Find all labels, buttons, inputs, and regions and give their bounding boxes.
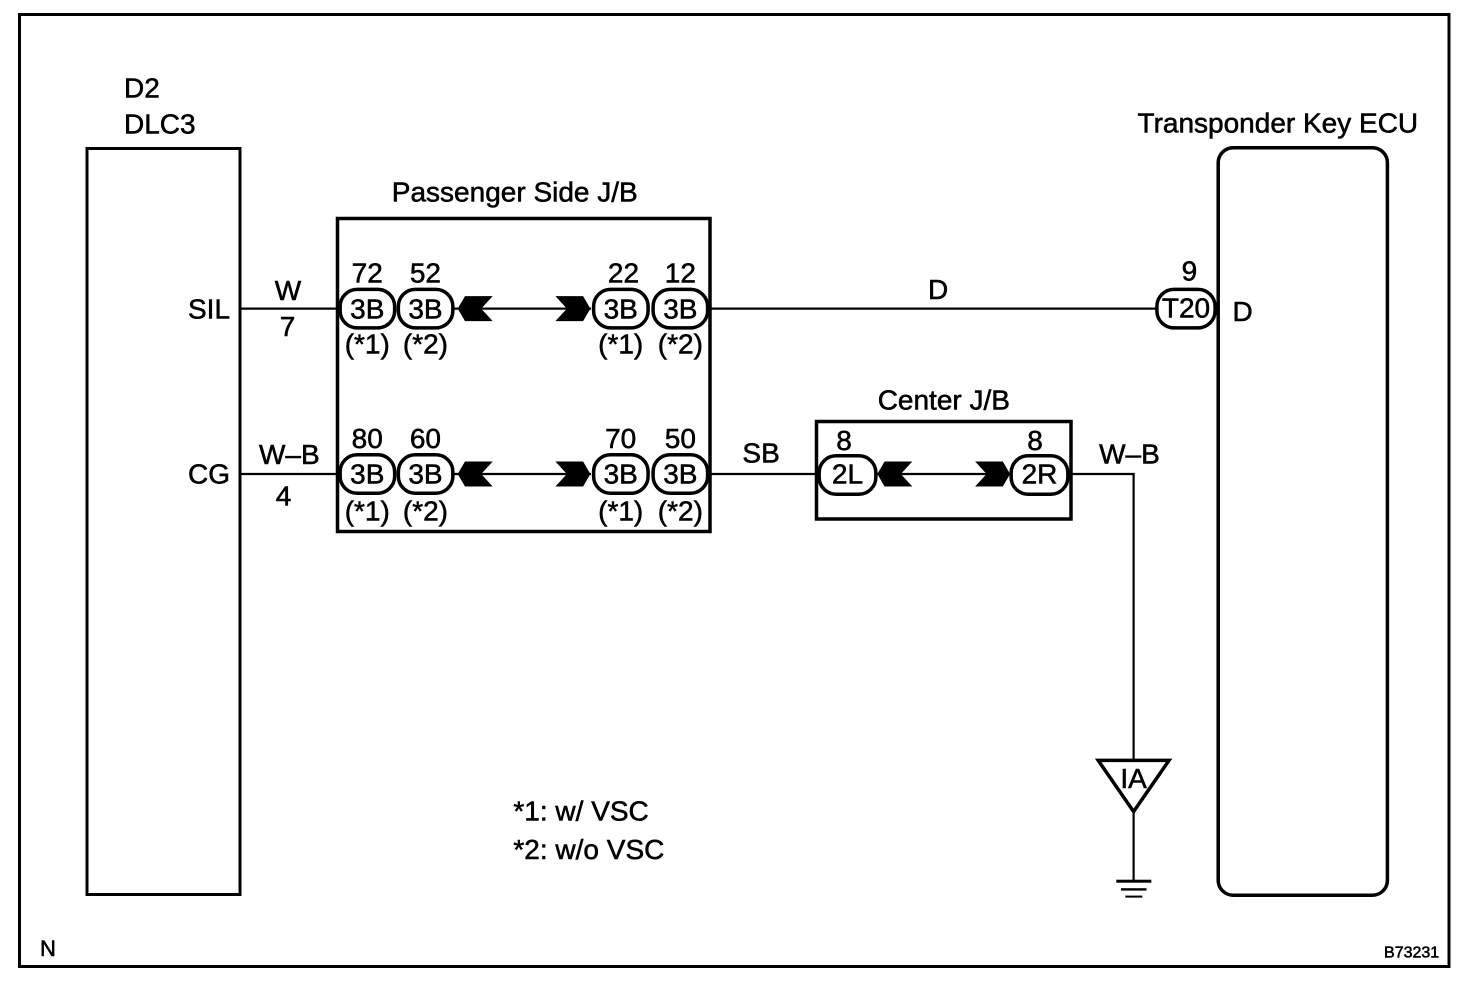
svg-text:CG: CG xyxy=(188,458,230,489)
svg-text:52: 52 xyxy=(410,257,441,288)
wire W-B from 2R to ground xyxy=(1067,473,1135,475)
svg-text:72: 72 xyxy=(352,257,383,288)
wire row1 inside J/B xyxy=(454,308,591,310)
connector D2 DLC3 block xyxy=(87,149,240,895)
svg-text:SIL: SIL xyxy=(188,293,230,324)
svg-text:12: 12 xyxy=(665,257,696,288)
wire CG W-B from DLC3 to J/B xyxy=(240,473,342,475)
connector 3B pin22 xyxy=(594,289,649,328)
svg-text:3B: 3B xyxy=(408,459,442,490)
connector T20 xyxy=(1157,289,1215,328)
connector 3B pin60 xyxy=(398,455,453,494)
svg-text:(*1): (*1) xyxy=(598,329,643,360)
wire row2 inside J/B xyxy=(454,473,591,475)
svg-text:(*2): (*2) xyxy=(658,329,703,360)
connector 3B pin70 xyxy=(594,455,649,494)
arrow right row1 xyxy=(555,296,590,321)
svg-text:(*2): (*2) xyxy=(403,495,448,526)
svg-text:(*1): (*1) xyxy=(345,329,390,360)
junction block Passenger Side J/B xyxy=(338,219,711,532)
svg-text:(*1): (*1) xyxy=(345,495,390,526)
wire D row1 J/B to T20 xyxy=(708,308,1158,310)
svg-text:70: 70 xyxy=(605,423,636,454)
svg-text:SB: SB xyxy=(742,438,779,469)
svg-text:*2: w/o VSC: *2: w/o VSC xyxy=(513,834,664,865)
connector 3B pin52 xyxy=(398,289,453,328)
wire SB row2 J/B to Center J/B xyxy=(708,473,820,475)
wire SIL W from DLC3 to J/B xyxy=(240,308,342,310)
ECU U1 Transponder Key ECU block xyxy=(1218,148,1387,896)
svg-text:7: 7 xyxy=(280,311,296,342)
svg-text:3B: 3B xyxy=(408,293,442,324)
svg-text:60: 60 xyxy=(410,423,441,454)
svg-text:D: D xyxy=(928,274,948,305)
svg-text:D: D xyxy=(1233,296,1253,327)
svg-text:8: 8 xyxy=(836,425,852,456)
svg-text:W–B: W–B xyxy=(259,439,320,470)
junction block Center J/B xyxy=(817,422,1072,520)
wire vertical down to IA xyxy=(1132,473,1134,760)
svg-text:80: 80 xyxy=(352,423,383,454)
svg-text:T20: T20 xyxy=(1162,293,1210,324)
arrow right center xyxy=(975,462,1010,487)
svg-text:W–B: W–B xyxy=(1099,438,1160,469)
arrow left row1 xyxy=(458,296,493,321)
svg-text:(*2): (*2) xyxy=(403,329,448,360)
svg-text:3B: 3B xyxy=(663,293,697,324)
connector 3B pin80 xyxy=(340,455,395,494)
svg-text:3B: 3B xyxy=(604,459,638,490)
svg-text:50: 50 xyxy=(665,423,696,454)
connector 3B pin50 xyxy=(653,455,708,494)
svg-text:Passenger Side J/B: Passenger Side J/B xyxy=(392,176,638,207)
svg-text:B73231: B73231 xyxy=(1384,945,1439,962)
connector 3B pin12 xyxy=(653,289,708,328)
svg-text:2L: 2L xyxy=(832,459,863,490)
svg-text:2R: 2R xyxy=(1022,459,1058,490)
svg-text:4: 4 xyxy=(276,481,292,512)
connector 2L xyxy=(819,456,876,495)
ground symbol xyxy=(1116,880,1151,898)
svg-text:3B: 3B xyxy=(350,293,384,324)
svg-text:(*1): (*1) xyxy=(598,495,643,526)
ground connector IA triangle xyxy=(1098,760,1169,811)
svg-text:3B: 3B xyxy=(663,459,697,490)
svg-text:*1: w/ VSC: *1: w/ VSC xyxy=(513,796,648,827)
wire inside Center J/B xyxy=(876,473,1012,475)
svg-text:9: 9 xyxy=(1182,255,1198,286)
svg-text:DLC3: DLC3 xyxy=(124,109,196,140)
svg-text:(*2): (*2) xyxy=(658,495,703,526)
arrow left row2 xyxy=(458,462,493,487)
arrow left center xyxy=(877,462,912,487)
svg-text:Center J/B: Center J/B xyxy=(878,384,1010,415)
svg-text:8: 8 xyxy=(1027,425,1043,456)
arrow right row2 xyxy=(555,462,590,487)
svg-text:N: N xyxy=(40,936,56,961)
svg-text:3B: 3B xyxy=(350,459,384,490)
connector 2R xyxy=(1011,456,1068,495)
svg-text:22: 22 xyxy=(608,257,639,288)
connector 3B pin72 xyxy=(340,289,395,328)
svg-text:D2: D2 xyxy=(124,73,160,104)
svg-text:Transponder Key ECU: Transponder Key ECU xyxy=(1138,107,1419,138)
wire IA to ground xyxy=(1132,813,1134,881)
svg-text:W: W xyxy=(275,275,302,306)
svg-text:3B: 3B xyxy=(604,293,638,324)
svg-text:IA: IA xyxy=(1120,763,1147,794)
